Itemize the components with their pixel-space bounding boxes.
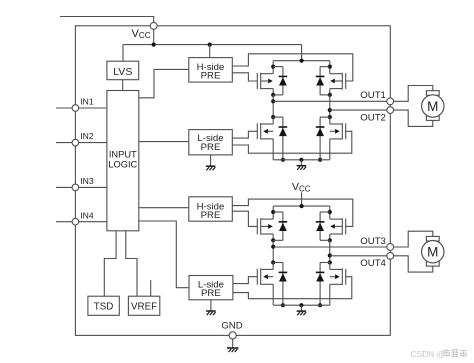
junction OUT2 node: [328, 108, 332, 112]
wire H-side PRE1 to Q2 gate (upper right): [232, 54, 352, 81]
motor M1 (OUT1/OUT2): [394, 86, 433, 102]
junction VCC feed on rail: [300, 204, 304, 208]
wire L-side PRE1 ground stub: [210, 155, 212, 166]
wire link drain to diode D8: [320, 262, 330, 264]
ground L-side PRE 1: [206, 166, 216, 170]
wire H-side PRE2 to Q6 gate (upper right): [232, 199, 352, 226]
wire IN3 to INPUT LOGIC: [79, 186, 107, 188]
transistor Q3 (low-side left): [256, 123, 258, 139]
wire source column Q3: [272, 139, 274, 160]
svg-text:M: M: [427, 99, 438, 114]
wire bridge top rail (VCC node): [273, 60, 330, 62]
diode D7 (body, lower-left): [282, 263, 284, 306]
wire drain column upper-right Q6: [329, 206, 331, 219]
wire source column Q8: [329, 284, 331, 305]
ground bridge bottom: [297, 311, 307, 315]
junction VCC rail / H-side PRE feed: [208, 43, 212, 47]
junction upper-left source node: [271, 93, 275, 97]
wire OUT1 line: [273, 100, 387, 102]
wire drain elbow Q7: [272, 263, 274, 270]
transistor Q8 (low-side right): [345, 269, 347, 285]
svg-text:CSDN @: CSDN @: [411, 349, 446, 359]
terminal VCC pin: [150, 22, 157, 29]
wire external VCC supply: [60, 17, 154, 23]
wire link source to diode D2: [320, 94, 330, 96]
junction diode D8 on rail: [318, 303, 322, 307]
wire OUT4 line: [330, 255, 387, 257]
junction lower-left drain node: [271, 260, 275, 264]
junction upper-left drain node: [271, 65, 275, 69]
wire drain column upper-left Q1: [272, 61, 274, 74]
wire source column Q4: [329, 139, 331, 160]
transistor Q2 (high-side right): [345, 73, 347, 89]
transistor Q4 (low-side right): [345, 123, 347, 139]
wire source elbow Q1: [272, 89, 274, 95]
svg-text:OUT4: OUT4: [360, 258, 386, 269]
junction upper-left source node: [271, 238, 275, 242]
wire link drain to diode D7: [273, 262, 283, 264]
wire INPUT LOGIC to VREF: [126, 231, 137, 296]
block VREF: [128, 296, 159, 315]
diode D1 (body, upper-left): [282, 67, 284, 95]
wire L-side PRE2 ground stub: [210, 300, 212, 311]
terminal OUT1 pin: [387, 98, 394, 105]
wire L-side PRE2 to Q7 gate (lower left): [233, 277, 257, 284]
junction diode D7 on rail: [281, 303, 285, 307]
svg-text:IN1: IN1: [80, 97, 94, 107]
wire drain elbow Q3: [272, 117, 274, 124]
block H-side PRE U1: [189, 58, 233, 83]
wire source elbow Q6: [329, 234, 331, 240]
wire INPUT LOGIC to H-side PRE 2: [139, 207, 189, 209]
svg-text:LOGIC: LOGIC: [108, 159, 137, 169]
wire VCC rail to bridge 1: [301, 45, 303, 61]
block H-side PRE U3: [189, 197, 233, 221]
wire IN4 external stub: [56, 221, 72, 223]
wire INPUT LOGIC to L-side PRE 1: [139, 141, 189, 143]
wire link source to diode D5: [273, 239, 283, 241]
terminal GND pin: [229, 332, 236, 339]
block LVS: [107, 61, 139, 79]
terminal IN1 pin: [72, 105, 79, 112]
wire L-side PRE1 to Q3 gate (lower left): [232, 131, 257, 138]
diode D6 (body, upper-right): [319, 212, 321, 240]
wire bridge bottom rail (GND node): [273, 304, 330, 306]
wire LVS to INPUT LOGIC: [122, 80, 124, 91]
junction upper-right drain node: [328, 210, 332, 214]
wire VCC rail to H-side PRE 1: [209, 45, 211, 58]
wire link drain to diode D6: [320, 211, 330, 213]
wire link drain to diode D2: [320, 66, 330, 68]
block L-side PRE U4: [189, 276, 233, 300]
junction VCC rail / pin: [152, 43, 156, 47]
svg-text:INPUT: INPUT: [109, 149, 137, 159]
wire drain elbow Q4: [329, 117, 331, 124]
wire GND pin to ground: [232, 339, 234, 348]
svg-text:IN4: IN4: [80, 210, 94, 220]
svg-text:GND: GND: [221, 321, 242, 332]
wire drain elbow Q8: [329, 263, 331, 270]
junction OUT3 node: [271, 245, 275, 249]
wire link drain to diode D5: [273, 211, 283, 213]
diode D8 (body, lower-right): [319, 263, 321, 306]
wire right column to OUT4: [329, 240, 331, 262]
wire left column to OUT1: [272, 95, 274, 117]
svg-text:PRE: PRE: [201, 142, 221, 153]
wire H-side PRE2 to Q5 gate (upper left): [232, 211, 257, 226]
motor M2 (OUT3/OUT4): [394, 231, 433, 247]
junction diode D4 on rail: [318, 158, 322, 162]
transistor Q5 (high-side left): [256, 218, 258, 234]
wire IN2 external stub: [56, 142, 72, 144]
terminal IN3 pin: [72, 184, 79, 191]
transistor Q7 (low-side left): [256, 269, 258, 285]
ground bridge bottom: [297, 166, 307, 170]
diode D5 (body, upper-left): [282, 212, 284, 240]
terminal IN2 pin: [72, 139, 79, 146]
svg-text:M: M: [427, 245, 438, 260]
wire source column Q7: [272, 284, 274, 305]
junction bottom rail center: [299, 158, 303, 162]
transistor Q1 (high-side left): [256, 73, 258, 89]
wire INPUT LOGIC to TSD: [104, 231, 116, 296]
wire bridge top rail (VCC node): [273, 205, 330, 207]
block L-side PRE U2: [189, 130, 233, 155]
wire left column to OUT3: [272, 240, 274, 262]
svg-text:VREF: VREF: [131, 302, 157, 313]
svg-text:PRE: PRE: [201, 210, 221, 221]
diode D3 (body, lower-left): [282, 117, 284, 160]
wire IN4 to INPUT LOGIC: [79, 221, 107, 223]
svg-text:IN2: IN2: [80, 131, 94, 141]
block INPUT LOGIC: [107, 91, 139, 231]
wire IN1 external stub: [56, 107, 72, 109]
svg-text:IN3: IN3: [80, 176, 94, 186]
svg-text:OUT2: OUT2: [360, 112, 386, 123]
wire link source to diode D1: [273, 94, 283, 96]
junction VCC feed on rail: [300, 59, 304, 63]
wire VREF stub: [150, 280, 152, 296]
svg-text:OUT3: OUT3: [360, 236, 386, 247]
svg-text:PRE: PRE: [201, 71, 221, 82]
terminal OUT2 pin: [387, 107, 394, 114]
junction lower-left drain node: [271, 115, 275, 119]
svg-text:LVS: LVS: [113, 66, 132, 78]
ground GND pin: [227, 348, 239, 352]
junction bottom rail center: [299, 303, 303, 307]
wire OUT3 line: [273, 246, 387, 248]
wire OUT2 line: [330, 109, 387, 111]
junction upper-right drain node: [328, 65, 332, 69]
wire IN1 to INPUT LOGIC: [79, 107, 107, 109]
junction OUT4 node: [328, 253, 332, 257]
transistor Q6 (high-side right): [345, 218, 347, 234]
wire IN2 to INPUT LOGIC: [79, 142, 107, 144]
terminal IN4 pin: [72, 218, 79, 225]
junction diode D3 on rail: [281, 158, 285, 162]
svg-text:TSD: TSD: [94, 302, 114, 313]
wire VCC rail to LVS: [122, 45, 124, 62]
junction OUT1 node: [271, 99, 275, 103]
wire INPUT LOGIC to L-side PRE 2: [139, 221, 189, 288]
terminal OUT4 pin: [387, 252, 394, 259]
ground L-side PRE 2: [206, 311, 216, 315]
wire right column to OUT2: [329, 95, 331, 117]
wire VCC rail: [123, 44, 302, 46]
junction upper-left drain node: [271, 210, 275, 214]
wire VCC pin to rail: [153, 29, 155, 44]
junction upper-right source node: [328, 93, 332, 97]
wire L-side PRE2 to Q8 gate (lower right): [233, 277, 352, 299]
junction lower-right drain node: [328, 260, 332, 264]
node VCC stub to bridge 2: [301, 192, 303, 206]
wire source elbow Q5: [272, 234, 274, 240]
IC outline box: [75, 26, 390, 336]
junction lower-right drain node: [328, 115, 332, 119]
diode D2 (body, upper-right): [319, 67, 321, 95]
wire link drain to diode D3: [273, 116, 283, 118]
wire link drain to diode D4: [320, 116, 330, 118]
wire source elbow Q2: [329, 89, 331, 95]
wire INPUT LOGIC to H-side PRE 1: [139, 69, 189, 97]
wire drain column upper-left Q5: [272, 206, 274, 219]
wire bottom rail ground stub: [300, 305, 302, 311]
wire IN3 external stub: [56, 186, 72, 188]
diode D4 (body, lower-right): [319, 117, 321, 160]
wire link source to diode D6: [320, 239, 330, 241]
block TSD: [88, 296, 119, 315]
junction upper-right source node: [328, 238, 332, 242]
wire bottom rail ground stub: [300, 160, 302, 166]
svg-text:PRE: PRE: [201, 288, 221, 299]
terminal OUT3 pin: [387, 244, 394, 251]
wire drain column upper-right Q2: [329, 61, 331, 74]
wire link drain to diode D1: [273, 66, 283, 68]
wire bridge bottom rail (GND node): [273, 159, 330, 161]
wire H-side PRE1 to Q1 gate (upper left): [232, 73, 257, 81]
wire L-side PRE1 to Q4 gate (lower right): [232, 131, 351, 153]
svg-text:OUT1: OUT1: [360, 90, 386, 101]
